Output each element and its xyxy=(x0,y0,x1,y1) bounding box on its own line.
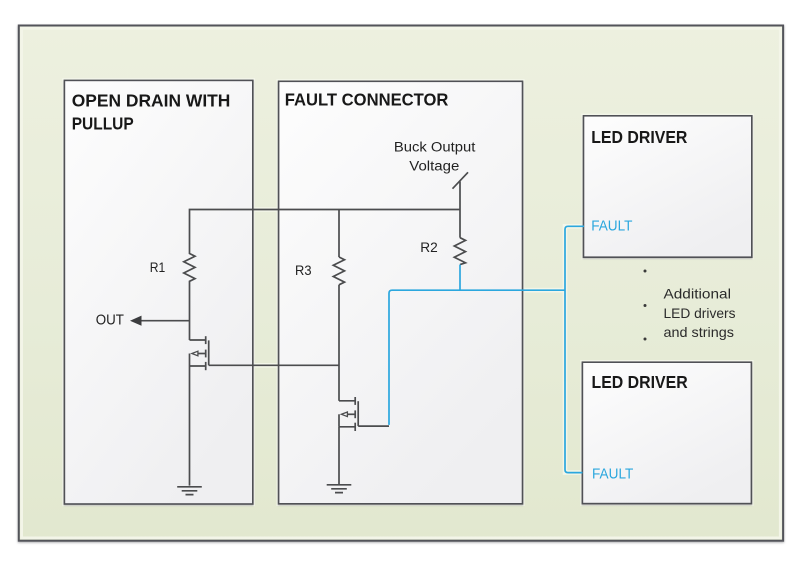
svg-text:and strings: and strings xyxy=(664,324,735,340)
svg-text:Buck Output: Buck Output xyxy=(394,140,476,155)
svg-text:Additional: Additional xyxy=(664,285,732,301)
svg-text:R3: R3 xyxy=(295,262,312,278)
svg-text:OPEN DRAIN WITH: OPEN DRAIN WITH xyxy=(72,90,231,110)
svg-text:LED DRIVER: LED DRIVER xyxy=(591,127,688,147)
svg-text:FAULT: FAULT xyxy=(592,467,633,483)
svg-text:Voltage: Voltage xyxy=(409,158,459,173)
svg-text:FAULT CONNECTOR: FAULT CONNECTOR xyxy=(285,89,449,109)
svg-text:LED drivers: LED drivers xyxy=(664,305,736,321)
svg-text:LED DRIVER: LED DRIVER xyxy=(592,372,689,392)
svg-text:OUT: OUT xyxy=(96,311,124,328)
svg-text:R2: R2 xyxy=(420,239,438,255)
svg-text:R1: R1 xyxy=(150,259,166,275)
svg-text:PULLUP: PULLUP xyxy=(72,114,134,134)
svg-text:FAULT: FAULT xyxy=(591,218,632,234)
